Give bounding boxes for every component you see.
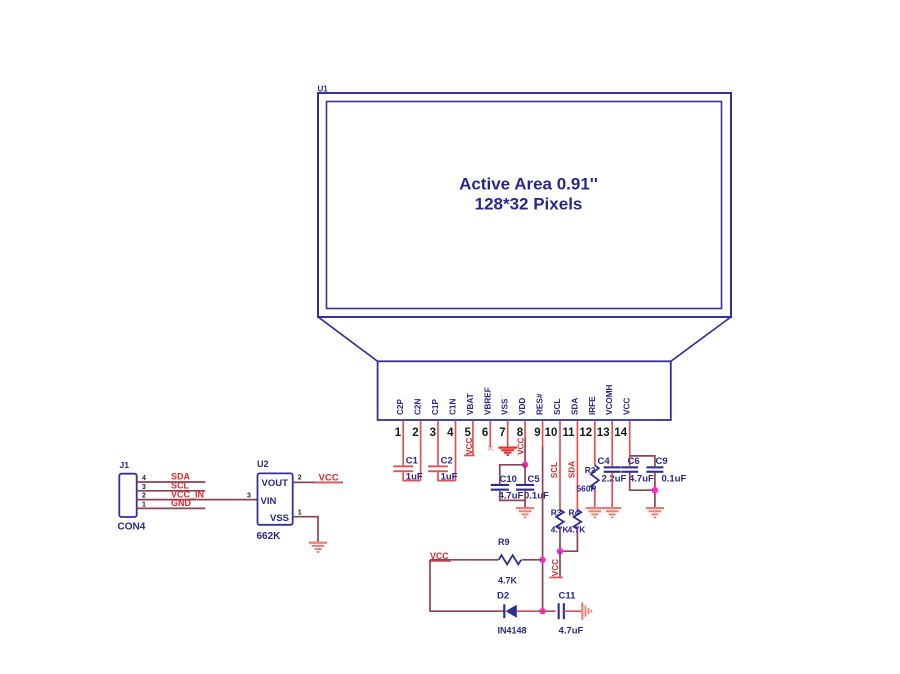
- capacitor C5: [516, 465, 549, 502]
- resistor R3 4.7K pull-up: [551, 507, 569, 534]
- VCC net label below R3/R4: [549, 559, 563, 578]
- regulator U2 662K: [257, 459, 293, 542]
- wire SCL from J1: [137, 490, 206, 492]
- svg-text:560R: 560R: [577, 483, 597, 493]
- wire U2 VSS to ground: [293, 517, 318, 542]
- display glass taper left edge: [319, 317, 378, 361]
- svg-text:5: 5: [464, 427, 471, 439]
- capacitor C6: [621, 456, 654, 485]
- svg-text:2: 2: [412, 427, 418, 439]
- svg-text:C1: C1: [406, 456, 419, 467]
- GND net label: [171, 498, 192, 508]
- svg-text:C5: C5: [528, 474, 541, 485]
- J1 pin 2 number: [142, 493, 146, 500]
- node junction pin8/C10/C5: [522, 462, 528, 468]
- wire C1 bottom to pin 2: [403, 472, 420, 480]
- U2 pin 2 number: [298, 475, 302, 482]
- svg-text:13: 13: [597, 427, 610, 439]
- SDA net label: [171, 472, 191, 482]
- ground below R2: [586, 507, 604, 518]
- wire GND from J1: [137, 507, 206, 509]
- svg-text:11: 11: [562, 427, 575, 439]
- label U1: [318, 85, 329, 94]
- pin 11 SDA: [562, 398, 579, 510]
- svg-text:VCC: VCC: [319, 473, 339, 484]
- node junction R3/R4: [557, 548, 563, 554]
- svg-text:6: 6: [482, 427, 488, 439]
- J1 pin 3 number: [142, 484, 146, 491]
- svg-text:IN4148: IN4148: [498, 626, 527, 636]
- svg-text:VOUT: VOUT: [262, 478, 289, 489]
- svg-text:10: 10: [545, 427, 558, 439]
- svg-text:VSS: VSS: [501, 398, 510, 415]
- svg-text:0.1uF: 0.1uF: [662, 474, 687, 485]
- pin 10 SCL: [545, 399, 562, 510]
- ground at pin 7 VSS: [498, 447, 517, 456]
- VCC net label at pin 5: [464, 438, 475, 457]
- svg-text:8: 8: [517, 427, 524, 439]
- capacitor C2: [428, 456, 458, 483]
- SCL net label at pin 10: [550, 462, 559, 478]
- svg-text:C4: C4: [598, 456, 611, 467]
- svg-text:VCC: VCC: [465, 438, 474, 455]
- connector J1 CON4: [118, 460, 146, 533]
- node junction RES#/R9: [539, 557, 545, 563]
- svg-text:Active Area 0.91'': Active Area 0.91'': [459, 175, 598, 194]
- svg-text:VBAT: VBAT: [466, 393, 475, 415]
- resistor R2 560R: [577, 465, 599, 493]
- wire junction to C10: [500, 465, 525, 484]
- wire C4 to ground: [611, 473, 613, 507]
- wire VCC to R9: [430, 559, 499, 561]
- svg-text:VSS: VSS: [270, 513, 289, 524]
- pin 8 VDD: [517, 398, 527, 439]
- wire VCC_IN from J1 to U2 VIN: [137, 499, 258, 501]
- node junction RES#/D2/C11: [539, 608, 545, 614]
- svg-text:12: 12: [579, 427, 592, 439]
- wire U2 VOUT: [293, 481, 343, 483]
- svg-text:R4: R4: [569, 507, 580, 517]
- wire R9 to RES# junction: [522, 559, 543, 561]
- svg-text:R2: R2: [585, 465, 596, 475]
- display module U1 outer outline: [318, 93, 731, 317]
- wire RES# pin 9 long run: [542, 447, 544, 611]
- svg-text:VIN: VIN: [261, 496, 277, 507]
- capacitor C4: [598, 456, 627, 485]
- capacitor C11: [558, 591, 584, 637]
- U2 pin 3 number: [247, 493, 251, 500]
- svg-text:0.1uF: 0.1uF: [524, 490, 549, 501]
- VCC net label at R9: [429, 551, 451, 562]
- wire C10/C5 bottoms to ground: [500, 491, 525, 507]
- svg-text:SCL: SCL: [550, 462, 559, 478]
- svg-text:4: 4: [447, 427, 454, 439]
- svg-text:C2P: C2P: [396, 399, 405, 415]
- svg-text:1: 1: [298, 510, 302, 517]
- svg-text:GND: GND: [171, 498, 192, 508]
- svg-text:CON4: CON4: [118, 522, 146, 533]
- svg-text:2.2uF: 2.2uF: [602, 474, 627, 485]
- wire SDA from J1: [137, 481, 206, 483]
- svg-text:3: 3: [430, 427, 436, 439]
- svg-text:1: 1: [142, 501, 146, 508]
- capacitor C9: [646, 456, 686, 485]
- svg-text:C2: C2: [441, 456, 453, 467]
- pin 5 VBAT: [464, 393, 474, 454]
- pin 1 C2P: [395, 399, 405, 466]
- J1 pin 4 number: [142, 475, 146, 482]
- svg-text:C6: C6: [628, 456, 640, 467]
- svg-text:C11: C11: [559, 591, 577, 602]
- svg-text:662K: 662K: [257, 531, 282, 542]
- wire pin14 rail to C9: [630, 456, 655, 466]
- display glass taper right edge: [671, 317, 731, 361]
- svg-text:U1: U1: [318, 85, 329, 94]
- svg-text:R9: R9: [498, 537, 510, 547]
- svg-text:D2: D2: [497, 591, 509, 602]
- svg-text:VBREF: VBREF: [483, 387, 492, 415]
- svg-text:VCC: VCC: [551, 559, 560, 576]
- svg-text:R3: R3: [551, 507, 562, 517]
- pin 9 RES#: [534, 393, 544, 447]
- svg-text:VDD: VDD: [518, 398, 527, 415]
- svg-text:SCL: SCL: [553, 399, 562, 415]
- svg-text:C1N: C1N: [449, 399, 458, 415]
- SCL net label: [171, 481, 190, 491]
- capacitor C1: [393, 456, 423, 483]
- ground below C10/C5: [516, 507, 534, 518]
- VCC net label at pin 8: [517, 438, 526, 455]
- wire C11 to ground: [564, 610, 581, 612]
- svg-text:VCC: VCC: [623, 398, 632, 415]
- node junction C6/C9: [652, 487, 658, 493]
- svg-text:C10: C10: [500, 474, 517, 485]
- svg-text:C2N: C2N: [414, 399, 423, 415]
- pin 14 VCC: [614, 398, 631, 467]
- wire pin 8 to C10/C5 junction: [524, 438, 526, 465]
- svg-text:IRFE: IRFE: [588, 396, 597, 415]
- ground right of C11 (rotated): [581, 602, 592, 619]
- wire C6/C9 bottoms join: [630, 473, 655, 507]
- svg-text:SDA: SDA: [570, 398, 579, 415]
- svg-text:4: 4: [142, 475, 146, 482]
- svg-text:VCOMH: VCOMH: [605, 384, 614, 415]
- display active area text: [459, 175, 598, 214]
- svg-text:4.7K: 4.7K: [498, 575, 518, 585]
- pin 2 C2N: [412, 399, 422, 481]
- svg-text:RES#: RES#: [536, 393, 545, 415]
- display inner bezel: [327, 102, 722, 309]
- pin 3 C1P: [430, 399, 440, 466]
- svg-text:J1: J1: [120, 460, 130, 470]
- SDA net label at pin 11: [567, 461, 576, 478]
- J1 pin 1 number: [142, 501, 146, 508]
- svg-text:14: 14: [614, 427, 627, 439]
- svg-text:4.7uF: 4.7uF: [559, 626, 584, 637]
- pin 7 VSS: [499, 398, 509, 446]
- pin 12 IRFE: [579, 396, 596, 465]
- svg-text:SDA: SDA: [567, 461, 576, 478]
- svg-text:9: 9: [534, 427, 540, 439]
- wire R2 to ground: [594, 489, 596, 507]
- svg-text:U2: U2: [257, 459, 269, 469]
- svg-text:3: 3: [142, 484, 146, 491]
- svg-text:2: 2: [298, 475, 302, 482]
- resistor R9 4.7K: [498, 537, 521, 585]
- wire D2 to junction: [517, 610, 556, 612]
- U2 pin 1 number: [298, 510, 302, 517]
- pin 6 VBREF: [482, 387, 492, 448]
- svg-text:1: 1: [395, 427, 402, 439]
- no-connect mark at pin 6: [488, 446, 493, 451]
- wire C2 bottom to pin 4: [438, 472, 456, 480]
- svg-text:C1P: C1P: [431, 399, 440, 415]
- wire R3/R4 bottoms join: [560, 529, 577, 551]
- VCC net label at U2 output: [319, 473, 339, 484]
- VCC_IN net label: [171, 489, 204, 499]
- wire VCC branch down to D2: [430, 560, 504, 611]
- svg-text:2: 2: [142, 493, 146, 500]
- svg-text:3: 3: [247, 493, 251, 500]
- ground below C4: [603, 507, 621, 518]
- pin 13 VCOMH: [597, 384, 614, 466]
- wire to VCC tail: [559, 551, 561, 577]
- ground below U2: [309, 542, 327, 553]
- svg-text:128*32 Pixels: 128*32 Pixels: [475, 195, 583, 214]
- svg-text:4.7K: 4.7K: [568, 524, 586, 534]
- diode D2 IN4148: [497, 591, 527, 636]
- capacitor C10: [491, 474, 524, 501]
- svg-text:C9: C9: [656, 456, 668, 467]
- svg-text:VCC: VCC: [517, 438, 526, 455]
- svg-text:7: 7: [499, 427, 505, 439]
- resistor R4 4.7K pull-up: [568, 507, 586, 534]
- pin header block: [378, 361, 671, 420]
- pin 4 C1N: [447, 399, 457, 481]
- svg-text:4.7uF: 4.7uF: [629, 474, 654, 485]
- ground below C6/C9: [646, 507, 664, 518]
